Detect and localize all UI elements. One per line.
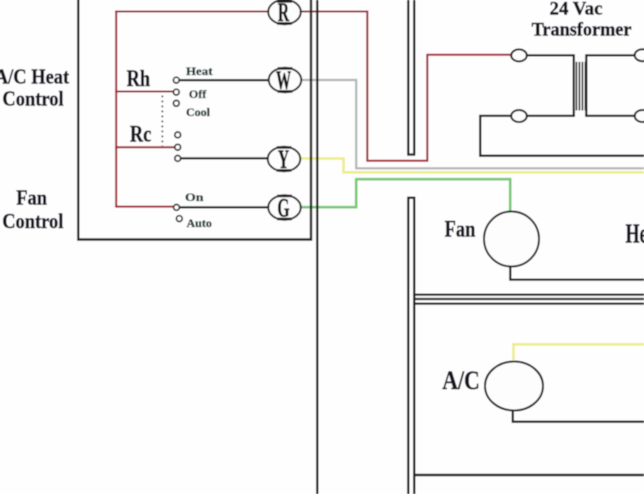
svg-text:R: R xyxy=(278,0,290,27)
svg-text:On: On xyxy=(185,190,203,204)
svg-text:Rh: Rh xyxy=(127,65,151,92)
svg-text:Control: Control xyxy=(2,210,64,233)
svg-text:24 Vac: 24 Vac xyxy=(549,0,602,19)
svg-text:Auto: Auto xyxy=(187,216,212,230)
svg-text:A/C: A/C xyxy=(442,367,480,395)
svg-text:Cool: Cool xyxy=(186,105,211,119)
svg-text:Y: Y xyxy=(278,145,290,174)
svg-text:Heat: Heat xyxy=(626,219,644,248)
svg-text:Control: Control xyxy=(2,87,64,110)
svg-text:Fan: Fan xyxy=(16,186,47,209)
svg-text:Off: Off xyxy=(189,87,207,101)
svg-text:Fan: Fan xyxy=(445,216,476,243)
svg-text:A/C Heat: A/C Heat xyxy=(0,65,70,88)
svg-text:G: G xyxy=(277,193,289,222)
svg-text:Transformer: Transformer xyxy=(532,19,632,40)
svg-text:Heat: Heat xyxy=(186,64,213,77)
svg-text:Rc: Rc xyxy=(130,121,151,148)
svg-text:W: W xyxy=(276,66,291,95)
